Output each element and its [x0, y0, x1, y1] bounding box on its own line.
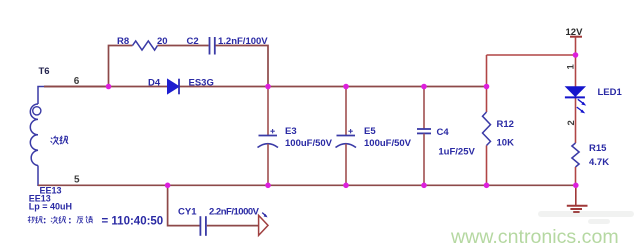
resistor R12: [483, 55, 491, 185]
resistor R8: [133, 41, 158, 50]
power symbol 12V: [570, 37, 582, 55]
wire: R8 to C2: [158, 45, 209, 47]
svg-text:4.7K: 4.7K: [589, 157, 609, 168]
svg-text:www.cntronics.com: www.cntronics.com: [450, 226, 619, 248]
wire: C2 to snubber right vertical down to main rail: [216, 46, 269, 87]
node: CY1 tap: [165, 183, 171, 189]
次: [51, 216, 58, 224]
capacitor CY1: [200, 216, 206, 236]
反: [77, 217, 83, 224]
svg-text:R8: R8: [117, 36, 129, 47]
wire: main rail (pin 6 to R12 column): [44, 86, 487, 88]
svg-text:100uF/50V: 100uF/50V: [364, 138, 412, 149]
svg-text:C2: C2: [187, 36, 199, 47]
svg-text:6: 6: [74, 76, 80, 87]
node: E5 bottom: [343, 183, 349, 189]
：: [69, 219, 71, 223]
svg-text:R15: R15: [589, 143, 607, 154]
wire: top link R12 to LED column: [487, 54, 576, 56]
node: R15 bottom / ground: [573, 183, 579, 189]
electrolytic capacitor E3: [258, 87, 279, 186]
svg-text:Lp = 40uH: Lp = 40uH: [29, 202, 72, 212]
svg-text:T6: T6: [39, 66, 50, 77]
faint watermark remnant: [538, 211, 634, 224]
winding label 次级: [51, 136, 59, 145]
svg-text:ES3G: ES3G: [189, 78, 214, 89]
node: E3 bottom: [265, 183, 271, 189]
初: [28, 216, 35, 223]
node: E5 top: [343, 84, 349, 90]
svg-text:LED1: LED1: [598, 87, 623, 98]
svg-text:100uF/50V: 100uF/50V: [285, 138, 333, 149]
port net arrow mark: [262, 213, 267, 218]
node: diode out / E3 top: [265, 84, 271, 90]
wire: bottom rail: [38, 184, 576, 186]
wire: snubber branch left vertical + top run to R8: [109, 46, 133, 87]
svg-text:R12: R12: [497, 119, 514, 130]
node: pin6/snubber junction: [106, 84, 112, 90]
resistor R15: [572, 143, 579, 167]
LED LED1: [565, 87, 586, 114]
ground: [567, 185, 588, 212]
：: [44, 219, 46, 223]
wire: LED column: [575, 55, 577, 143]
node: 12V / LED top: [573, 52, 579, 58]
node: R12 top rail: [484, 84, 490, 90]
级: [59, 216, 66, 223]
svg-text:2.2nF/1000V: 2.2nF/1000V: [209, 207, 260, 218]
transformer polarity dot: [33, 107, 41, 115]
svg-text:D4: D4: [148, 78, 161, 89]
capacitor C4: [417, 87, 431, 186]
馈: [86, 216, 93, 223]
svg-text:2: 2: [566, 120, 577, 125]
wire: CY1 to port: [207, 225, 258, 227]
pin 2: [566, 120, 577, 125]
svg-text:CY1: CY1: [178, 207, 197, 218]
svg-text:1: 1: [566, 63, 577, 69]
svg-text:5: 5: [74, 175, 80, 186]
annotation 初级:次级:反馈 = 110:40:50: [28, 216, 93, 224]
capacitor C2: [210, 37, 215, 55]
wire: R15 to bottom junction: [575, 167, 577, 185]
svg-text:C4: C4: [437, 127, 450, 138]
node: C4 bottom: [421, 183, 427, 189]
node: C4 top: [421, 84, 427, 90]
pin 1: [566, 63, 577, 69]
svg-text:12V: 12V: [566, 27, 584, 38]
svg-text:E5: E5: [364, 126, 376, 137]
node: R12 bottom: [484, 183, 490, 189]
port arrow (earth connection): [259, 215, 268, 235]
transformer T6 secondary winding: [30, 87, 50, 186]
diode D4: [168, 79, 180, 95]
svg-text:E3: E3: [285, 126, 297, 137]
svg-text:= 110:40:50: = 110:40:50: [102, 215, 164, 227]
svg-text:10K: 10K: [497, 138, 515, 149]
级: [36, 216, 43, 223]
svg-text:1uF/25V: 1uF/25V: [438, 147, 475, 158]
wire: transformer pin 6 to snubber junction: [44, 86, 109, 88]
wire: CY1 branch: [168, 185, 200, 225]
electrolytic capacitor E5: [336, 87, 357, 186]
